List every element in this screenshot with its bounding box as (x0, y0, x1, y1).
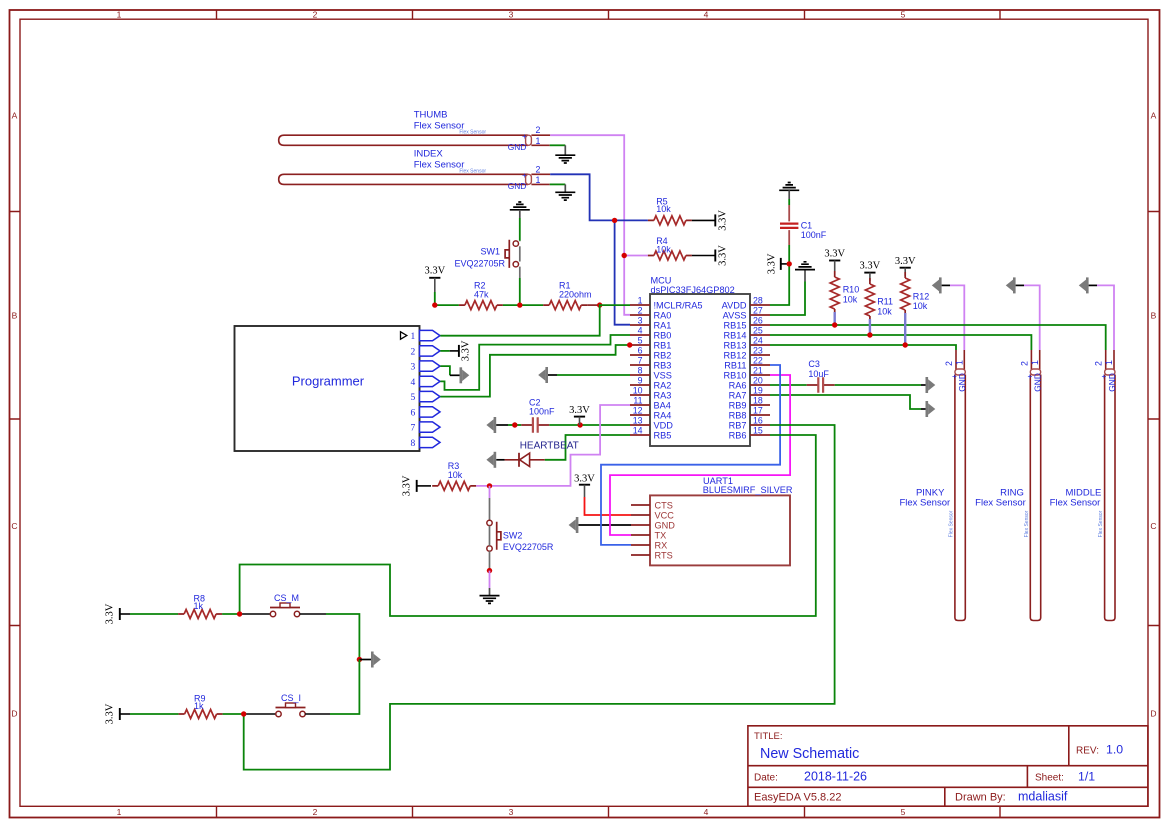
resistor R3 10k (432, 461, 476, 490)
svg-text:2: 2 (638, 305, 643, 315)
resistor R1 220ohm (543, 280, 591, 309)
svg-text:2: 2 (313, 807, 318, 817)
svg-text:1: 1 (117, 10, 122, 20)
svg-text:VDD: VDD (654, 420, 674, 430)
svg-text:6: 6 (411, 408, 416, 418)
Programmer pin 3 (411, 361, 440, 373)
svg-text:RB2: RB2 (654, 350, 672, 360)
wire C1 to AVDD (770, 245, 789, 305)
svg-text:16: 16 (753, 415, 763, 425)
ground at SW2 (480, 596, 500, 604)
3.3V flag at Programmer pin2 (450, 340, 472, 361)
wire THUMB pin1 to ground (550, 144, 566, 146)
UART1 pin names (655, 500, 676, 560)
MCU left pin numbers (633, 295, 643, 435)
svg-text:1/1: 1/1 (1078, 770, 1095, 784)
node at VDD 3.3V (577, 422, 582, 427)
svg-text:RB0: RB0 (654, 330, 672, 340)
3.3V flag at UART VCC (574, 473, 595, 497)
svg-text:B: B (1151, 311, 1157, 321)
wire ground to C1 (788, 190, 790, 199)
svg-text:4: 4 (704, 10, 709, 20)
ground at INDEX (555, 192, 575, 200)
wire R8 to CS_M (222, 613, 240, 615)
svg-text:3: 3 (509, 807, 514, 817)
svg-text:10k: 10k (843, 294, 858, 304)
svg-text:3.3V: 3.3V (569, 405, 590, 416)
node R10/RB15 (832, 322, 837, 327)
svg-text:RB10: RB10 (724, 370, 747, 380)
svg-text:B: B (12, 311, 18, 321)
capacitor C2 100nF (521, 398, 555, 433)
MCU right pin leads 28-15 (750, 305, 770, 435)
wire 3.3V to R8 (130, 613, 178, 615)
svg-text:RA3: RA3 (654, 390, 672, 400)
node R11/RB14 (867, 332, 872, 337)
svg-text:1k: 1k (194, 701, 204, 711)
wire R11 to RB14 line (blue lead) (869, 319, 871, 335)
ground arrow at RA7 (926, 401, 936, 417)
svg-text:RA6: RA6 (729, 380, 747, 390)
wire VSS to arrow ground (557, 374, 630, 376)
button CS_M (242, 593, 326, 617)
svg-text:1: 1 (536, 175, 541, 185)
3.3V flag at VDD (569, 405, 590, 425)
wire RING pin1 to arrow-ground (violet) (1024, 285, 1040, 350)
wire RA6 to C3 (770, 384, 807, 386)
ground (flipped) at AVSS (795, 262, 815, 270)
wire ground to SW1 (519, 210, 521, 218)
flex sensor PINKY (899, 350, 967, 621)
svg-text:10k: 10k (656, 245, 671, 255)
Programmer pin 2 (411, 346, 440, 358)
svg-text:A: A (12, 111, 18, 121)
svg-text:RB9: RB9 (729, 400, 747, 410)
3.3V flag at C1 (766, 253, 786, 274)
svg-text:10uF: 10uF (808, 369, 829, 379)
svg-text:TITLE:: TITLE: (754, 731, 783, 742)
resistor R11 10k (865, 278, 893, 322)
3.3V flag at R2 (424, 266, 445, 293)
3.3V flag at R10 (824, 249, 845, 271)
svg-text:Flex Sensor: Flex Sensor (459, 129, 486, 135)
node R12/RB13 (903, 342, 908, 347)
ground arrow at UART GND (569, 517, 579, 533)
svg-text:7: 7 (638, 355, 643, 365)
svg-text:CTS: CTS (655, 500, 673, 510)
wire PINKY pin1 to arrow-ground (violet) (950, 285, 964, 350)
svg-text:22: 22 (753, 355, 763, 365)
svg-text:3.3V: 3.3V (895, 256, 916, 267)
wire SW2 to ground (489, 551, 491, 570)
svg-text:3.3V: 3.3V (718, 210, 729, 231)
svg-text:2: 2 (536, 164, 541, 174)
3.3V flag at R8 (105, 603, 131, 624)
wire RB11 to UART RX (blue) (601, 365, 780, 545)
ground arrow at CS (371, 652, 381, 668)
svg-text:10k: 10k (656, 204, 671, 214)
svg-text:25: 25 (753, 325, 763, 335)
resistor R9 1k (179, 693, 223, 718)
node at MCLR (597, 302, 602, 307)
svg-text:2: 2 (1019, 361, 1029, 366)
svg-text:R11: R11 (877, 297, 893, 307)
wire 3.3V to R9 (130, 713, 179, 715)
svg-text:Flex Sensor: Flex Sensor (414, 120, 465, 131)
svg-text:RB13: RB13 (724, 340, 747, 350)
svg-text:3.3V: 3.3V (105, 703, 116, 724)
wire Programmer pin2 to 3.3V (440, 350, 449, 352)
svg-text:100nF: 100nF (801, 230, 827, 240)
svg-text:Date:: Date: (754, 773, 778, 784)
svg-text:EVQ22705R: EVQ22705R (503, 542, 554, 552)
wire INDEX pin2 to R5 node and RA1 (blue) (550, 174, 648, 324)
MCU U? dsPIC33FJ64GP802 (650, 275, 750, 446)
wire R4 to RA0 branch (violet) (624, 255, 648, 257)
svg-text:Flex Sensor: Flex Sensor (414, 160, 465, 171)
svg-text:Flex Sensor: Flex Sensor (899, 497, 950, 508)
svg-text:BA4: BA4 (654, 400, 671, 410)
flex sensor THUMB (279, 110, 551, 152)
svg-text:1.0: 1.0 (1106, 743, 1123, 757)
svg-text:24: 24 (753, 335, 763, 345)
wire MIDDLE pin1 to arrow-ground (violet) (1097, 285, 1114, 350)
wire R10 to RB15 line (blue lead) (834, 312, 836, 325)
wire C3 to arrow ground (835, 384, 921, 386)
svg-text:CS_M: CS_M (274, 593, 299, 603)
Programmer pin 1 (411, 330, 440, 342)
svg-text:2: 2 (944, 361, 954, 366)
svg-text:Sheet:: Sheet: (1035, 773, 1064, 784)
svg-text:5: 5 (638, 335, 643, 345)
wire C2 to VDD (549, 424, 630, 426)
svg-text:VCC: VCC (655, 510, 675, 520)
svg-text:R12: R12 (913, 291, 930, 301)
button CS_I (246, 693, 330, 717)
svg-text:3.3V: 3.3V (574, 473, 595, 484)
switch SW2 EVQ22705R (487, 520, 554, 552)
svg-text:4: 4 (411, 378, 416, 388)
svg-text:100nF: 100nF (529, 407, 555, 417)
svg-text:2: 2 (536, 125, 541, 135)
svg-text:26: 26 (753, 315, 763, 325)
svg-text:D: D (11, 709, 17, 719)
svg-text:21: 21 (753, 365, 763, 375)
svg-text:5: 5 (901, 10, 906, 20)
svg-text:1: 1 (955, 360, 965, 365)
svg-text:mdaliasif: mdaliasif (1018, 790, 1068, 804)
node at R8/CS_M (237, 611, 242, 616)
wire RB10 to UART TX (magenta) (610, 375, 790, 535)
svg-text:GND: GND (508, 142, 527, 152)
svg-text:Flex Sensor: Flex Sensor (975, 497, 1026, 508)
MCU left pin names (654, 300, 703, 440)
svg-text:1: 1 (1030, 360, 1040, 365)
svg-text:RB6: RB6 (729, 430, 747, 440)
svg-text:GND: GND (508, 181, 527, 191)
svg-text:3.3V: 3.3V (860, 261, 881, 272)
title block (748, 726, 1148, 806)
wire 3.3V to VCC (red) (585, 497, 632, 515)
svg-text:18: 18 (753, 395, 763, 405)
Programmer pin 4 (411, 376, 440, 388)
MCU right pin names (722, 300, 747, 440)
svg-text:+: + (522, 132, 527, 141)
wire RB5 to heartbeat diode (545, 435, 630, 460)
svg-text:10k: 10k (913, 301, 928, 311)
wire RB15 to MIDDLE pin2 (770, 325, 1106, 350)
wire R3 to SW2 and BA4 (violet) (476, 405, 630, 486)
3.3V flag at R4 (692, 245, 729, 266)
wire R2 to SW1 node (503, 304, 543, 306)
module U? UART1 BLUESMIRF_SILVER (650, 476, 793, 566)
svg-text:dsPIC33FJ64GP802: dsPIC33FJ64GP802 (651, 285, 735, 295)
svg-text:RB7: RB7 (729, 420, 747, 430)
svg-text:10k: 10k (448, 470, 463, 480)
svg-text:7: 7 (411, 424, 416, 434)
svg-text:2: 2 (411, 347, 416, 357)
svg-text:RA4: RA4 (654, 410, 672, 420)
ground arrow at C2 (486, 417, 496, 433)
wire AVSS to ground (770, 282, 805, 316)
svg-text:2: 2 (1094, 361, 1104, 366)
svg-text:2: 2 (313, 10, 318, 20)
3.3V flag at R12 (895, 256, 916, 276)
svg-text:Programmer: Programmer (292, 374, 365, 389)
svg-text:GND: GND (1033, 373, 1043, 392)
wire RB6 to CS_M (green) (240, 435, 816, 616)
wire R12 to RB13 line (blue lead) (904, 313, 906, 345)
flex sensor RING (975, 350, 1042, 621)
ground arrow at RING (1006, 277, 1016, 293)
node at 3.3V/R2 (432, 302, 437, 307)
svg-text:5: 5 (901, 807, 906, 817)
svg-text:Drawn By:: Drawn By: (955, 792, 1006, 804)
svg-text:8: 8 (638, 365, 643, 375)
svg-text:Flex Sensor: Flex Sensor (459, 168, 486, 174)
svg-text:R10: R10 (843, 285, 860, 295)
wire RB13 to PINKY pin2 (770, 345, 956, 350)
svg-text:3.3V: 3.3V (424, 266, 445, 277)
svg-text:14: 14 (633, 425, 643, 435)
svg-text:BLUESMIRF_SILVER: BLUESMIRF_SILVER (703, 485, 793, 495)
svg-text:17: 17 (753, 405, 763, 415)
svg-text:4: 4 (638, 325, 643, 335)
3.3V flag at R9 (105, 703, 131, 724)
svg-text:RB1: RB1 (654, 340, 672, 350)
svg-text:8: 8 (411, 439, 416, 449)
node at R3/SW2 (487, 483, 492, 488)
svg-text:3.3V: 3.3V (402, 475, 413, 496)
svg-text:Flex Sensor: Flex Sensor (1050, 497, 1101, 508)
ground arrow at RA6 (926, 377, 936, 393)
svg-text:RB3: RB3 (654, 360, 672, 370)
svg-text:3.3V: 3.3V (461, 340, 472, 361)
svg-text:11: 11 (633, 395, 642, 405)
svg-text:C3: C3 (808, 359, 820, 369)
wire UART GND to arrow ground (black) (578, 524, 631, 526)
svg-text:10: 10 (633, 385, 643, 395)
svg-text:C1: C1 (801, 220, 813, 230)
wire THUMB pin2 to RA0 (violet) (550, 135, 630, 315)
svg-text:HEARTBEAT: HEARTBEAT (520, 441, 579, 452)
wire R3 node to SW2 (489, 486, 491, 498)
svg-text:EVQ22705R: EVQ22705R (454, 258, 505, 268)
svg-text:EasyEDA V5.8.22: EasyEDA V5.8.22 (754, 792, 841, 804)
wire RB14 to RING pin2 (770, 335, 1031, 350)
svg-text:3: 3 (509, 10, 514, 20)
Programmer pin 8 (411, 437, 440, 449)
svg-text:AVDD: AVDD (722, 300, 747, 310)
Programmer pin 6 (411, 407, 440, 419)
node below SW2 (487, 568, 492, 573)
svg-text:AVSS: AVSS (723, 310, 747, 320)
svg-text:RX: RX (655, 540, 668, 550)
node at RB1 (627, 342, 632, 347)
svg-text:12: 12 (633, 405, 643, 415)
node at CS ground (357, 657, 362, 662)
wire Programmer pin1 to MCLR (440, 305, 630, 336)
svg-text:RA1: RA1 (654, 320, 672, 330)
node at C2 left (512, 422, 517, 427)
3.3V flag at R5 (692, 210, 729, 231)
svg-text:RTS: RTS (655, 550, 673, 560)
svg-text:3: 3 (638, 315, 643, 325)
wire CS_I to ground node (330, 660, 359, 715)
3.3V flag at R11 (860, 261, 881, 281)
svg-text:RB11: RB11 (724, 360, 746, 370)
svg-text:1k: 1k (194, 601, 204, 611)
resistor R10 10k (830, 271, 859, 315)
wire SW1 to R2/R1 row (519, 267, 521, 278)
flex sensor MIDDLE (1050, 350, 1117, 621)
3.3V flag at R3 (402, 475, 432, 496)
capacitor C1 100nF (780, 220, 827, 245)
svg-text:47k: 47k (474, 289, 489, 299)
svg-text:THUMB: THUMB (414, 110, 448, 121)
ground arrow at HEARTBEAT (486, 452, 496, 468)
svg-text:MCU: MCU (651, 275, 672, 285)
svg-text:10k: 10k (877, 306, 892, 316)
wire RB7 to CS_I (green) (244, 425, 835, 770)
node at R5 / INDEX (612, 218, 617, 223)
svg-text:GND: GND (1107, 373, 1117, 392)
svg-text:Flex Sensor: Flex Sensor (1024, 510, 1030, 537)
UART1 pin leads (631, 505, 650, 555)
ground (flipped) above SW1 (510, 202, 530, 210)
Programmer pin 5 (411, 391, 440, 403)
svg-text:SW1: SW1 (480, 246, 500, 256)
resistor R5 10k (648, 197, 692, 225)
svg-text:A: A (1151, 111, 1157, 121)
diode HEARTBEAT (505, 441, 579, 467)
svg-text:9: 9 (638, 375, 643, 385)
svg-text:3.3V: 3.3V (824, 249, 845, 260)
ground arrow at VSS (538, 367, 548, 383)
svg-text:TX: TX (655, 530, 667, 540)
svg-text:C: C (11, 521, 17, 531)
ground arrow at PINKY (932, 277, 942, 293)
svg-text:1: 1 (117, 807, 122, 817)
svg-text:!MCLR/RA5: !MCLR/RA5 (654, 300, 703, 310)
svg-text:220ohm: 220ohm (559, 289, 592, 299)
svg-text:New Schematic: New Schematic (760, 746, 859, 762)
svg-text:RB5: RB5 (654, 430, 672, 440)
MCU left pin leads 1-14 (630, 305, 650, 435)
svg-text:CS_I: CS_I (281, 693, 301, 703)
svg-text:28: 28 (753, 295, 763, 305)
svg-text:20: 20 (753, 375, 763, 385)
svg-text:C: C (1150, 521, 1156, 531)
svg-text:6: 6 (638, 345, 643, 355)
capacitor C3 10uF (807, 359, 835, 392)
svg-text:RB8: RB8 (729, 410, 747, 420)
flex sensor INDEX (279, 149, 551, 191)
svg-text:1: 1 (536, 136, 541, 146)
wire arrow to C2 (508, 424, 521, 426)
svg-text:15: 15 (753, 425, 763, 435)
svg-text:SW2: SW2 (503, 531, 523, 541)
svg-text:REV:: REV: (1076, 746, 1099, 757)
svg-text:23: 23 (753, 345, 763, 355)
svg-text:RB12: RB12 (724, 350, 747, 360)
svg-text:1: 1 (638, 295, 643, 305)
wire RA7 to arrow ground (770, 395, 921, 409)
svg-text:1: 1 (1104, 360, 1114, 365)
svg-text:D: D (1150, 709, 1156, 719)
wire 3.3V to R2 (435, 292, 459, 305)
node at C1/3.3V (787, 261, 792, 266)
svg-text:3.3V: 3.3V (718, 245, 729, 266)
Programmer clock marker (401, 332, 407, 339)
node at SW1 bottom (517, 302, 522, 307)
svg-text:Flex Sensor: Flex Sensor (949, 510, 955, 537)
svg-text:RB14: RB14 (724, 330, 747, 340)
wire R1 to MCLR (587, 304, 600, 306)
wire R9 to CS_I (223, 713, 244, 715)
svg-text:19: 19 (753, 385, 763, 395)
svg-text:GND: GND (655, 520, 676, 530)
svg-text:3: 3 (411, 363, 416, 373)
svg-text:2018-11-26: 2018-11-26 (804, 770, 867, 784)
ground (flipped) above C1 (779, 183, 799, 191)
resistor R12 10k (901, 272, 930, 316)
svg-text:VSS: VSS (654, 370, 672, 380)
resistor R4 10k (648, 236, 692, 260)
svg-text:Flex Sensor: Flex Sensor (1098, 510, 1104, 537)
svg-text:27: 27 (753, 305, 763, 315)
node at R9/CS_I (241, 711, 246, 716)
svg-text:3.3V: 3.3V (105, 603, 116, 624)
svg-text:3.3V: 3.3V (766, 253, 777, 274)
svg-text:RB15: RB15 (724, 320, 747, 330)
svg-text:RA7: RA7 (729, 390, 747, 400)
connector P? Programmer (235, 326, 420, 451)
wire CS_M to ground node (326, 614, 359, 660)
ground arrow at Programmer pin3 (460, 367, 470, 383)
svg-text:4: 4 (704, 807, 709, 817)
svg-text:INDEX: INDEX (414, 149, 444, 160)
wire Programmer pin3 to arrow ground (440, 366, 450, 375)
ground at THUMB (555, 155, 575, 163)
resistor R2 47k (459, 280, 503, 309)
wire INDEX pin1 to ground (550, 183, 566, 185)
svg-text:13: 13 (633, 415, 643, 425)
wire Programmer pin4 to RB0 (440, 335, 630, 390)
svg-text:RA0: RA0 (654, 310, 672, 320)
wire Programmer pin5 to RB1 (440, 345, 630, 397)
resistor R8 1k (178, 593, 222, 618)
